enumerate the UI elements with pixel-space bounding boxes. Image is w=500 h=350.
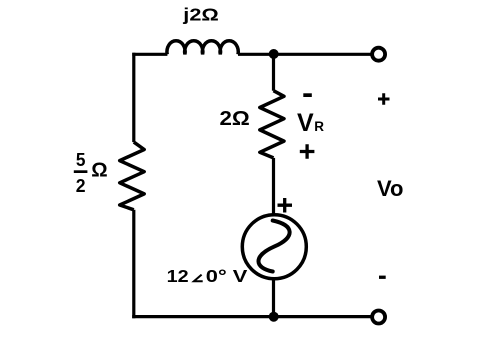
wire: left vertical bottom segment xyxy=(132,210,135,318)
wire: top-left horizontal (left corner to inductor) xyxy=(132,53,167,56)
wire: node A to top terminal xyxy=(274,53,371,56)
svg-text:V: V xyxy=(297,109,314,137)
label angle symbol xyxy=(194,275,203,282)
resistor R1 5/2 ohm (left) xyxy=(120,142,145,210)
resistor R2 2ohm (middle) xyxy=(260,91,284,158)
label 5/2 ohm: omega xyxy=(91,159,107,181)
label VR xyxy=(297,109,324,137)
label 5/2 ohm: denominator 2 xyxy=(76,176,86,196)
svg-text:5: 5 xyxy=(76,150,86,170)
label Vo xyxy=(377,176,403,201)
label 0 deg V xyxy=(206,266,248,286)
label 5/2 ohm: numerator 5 xyxy=(76,150,86,170)
label plus (VR bottom) xyxy=(300,144,315,159)
label minus (VR top) xyxy=(303,93,312,97)
wire: left vertical top segment xyxy=(132,53,135,142)
label plus (source top) xyxy=(278,198,293,213)
inductor L1 j2ohm xyxy=(167,41,238,55)
svg-text:Ω: Ω xyxy=(91,159,107,181)
svg-text:Vo: Vo xyxy=(377,176,403,201)
label plus (output top right) xyxy=(378,93,390,105)
wire: inductor to node A xyxy=(238,53,274,56)
wire: source VS to node B xyxy=(272,279,275,317)
wire: resistor R2 to source VS xyxy=(272,158,275,215)
label 2ohm xyxy=(220,108,250,130)
terminal: bottom output (open circle) xyxy=(372,311,385,324)
wire: node A down to resistor R2 xyxy=(272,54,275,90)
svg-text:0° V: 0° V xyxy=(206,266,248,286)
node A (top junction dot) xyxy=(269,49,279,59)
node B (bottom junction dot) xyxy=(269,312,279,322)
label j2ohm xyxy=(182,5,219,25)
source VS circle (12 angle 0 V) xyxy=(242,215,306,279)
svg-text:2: 2 xyxy=(76,176,86,196)
terminal: top output (open circle) xyxy=(372,48,385,61)
label 12 xyxy=(167,266,189,286)
source VS sine wave xyxy=(258,221,289,272)
svg-text:j2Ω: j2Ω xyxy=(182,5,219,25)
label minus (output bottom right) xyxy=(379,276,386,279)
svg-text:2Ω: 2Ω xyxy=(220,108,250,130)
label 5/2 ohm: fraction bar xyxy=(74,170,88,173)
wire: bottom horizontal xyxy=(132,315,370,318)
svg-text:R: R xyxy=(314,119,324,134)
svg-text:12: 12 xyxy=(167,266,189,286)
